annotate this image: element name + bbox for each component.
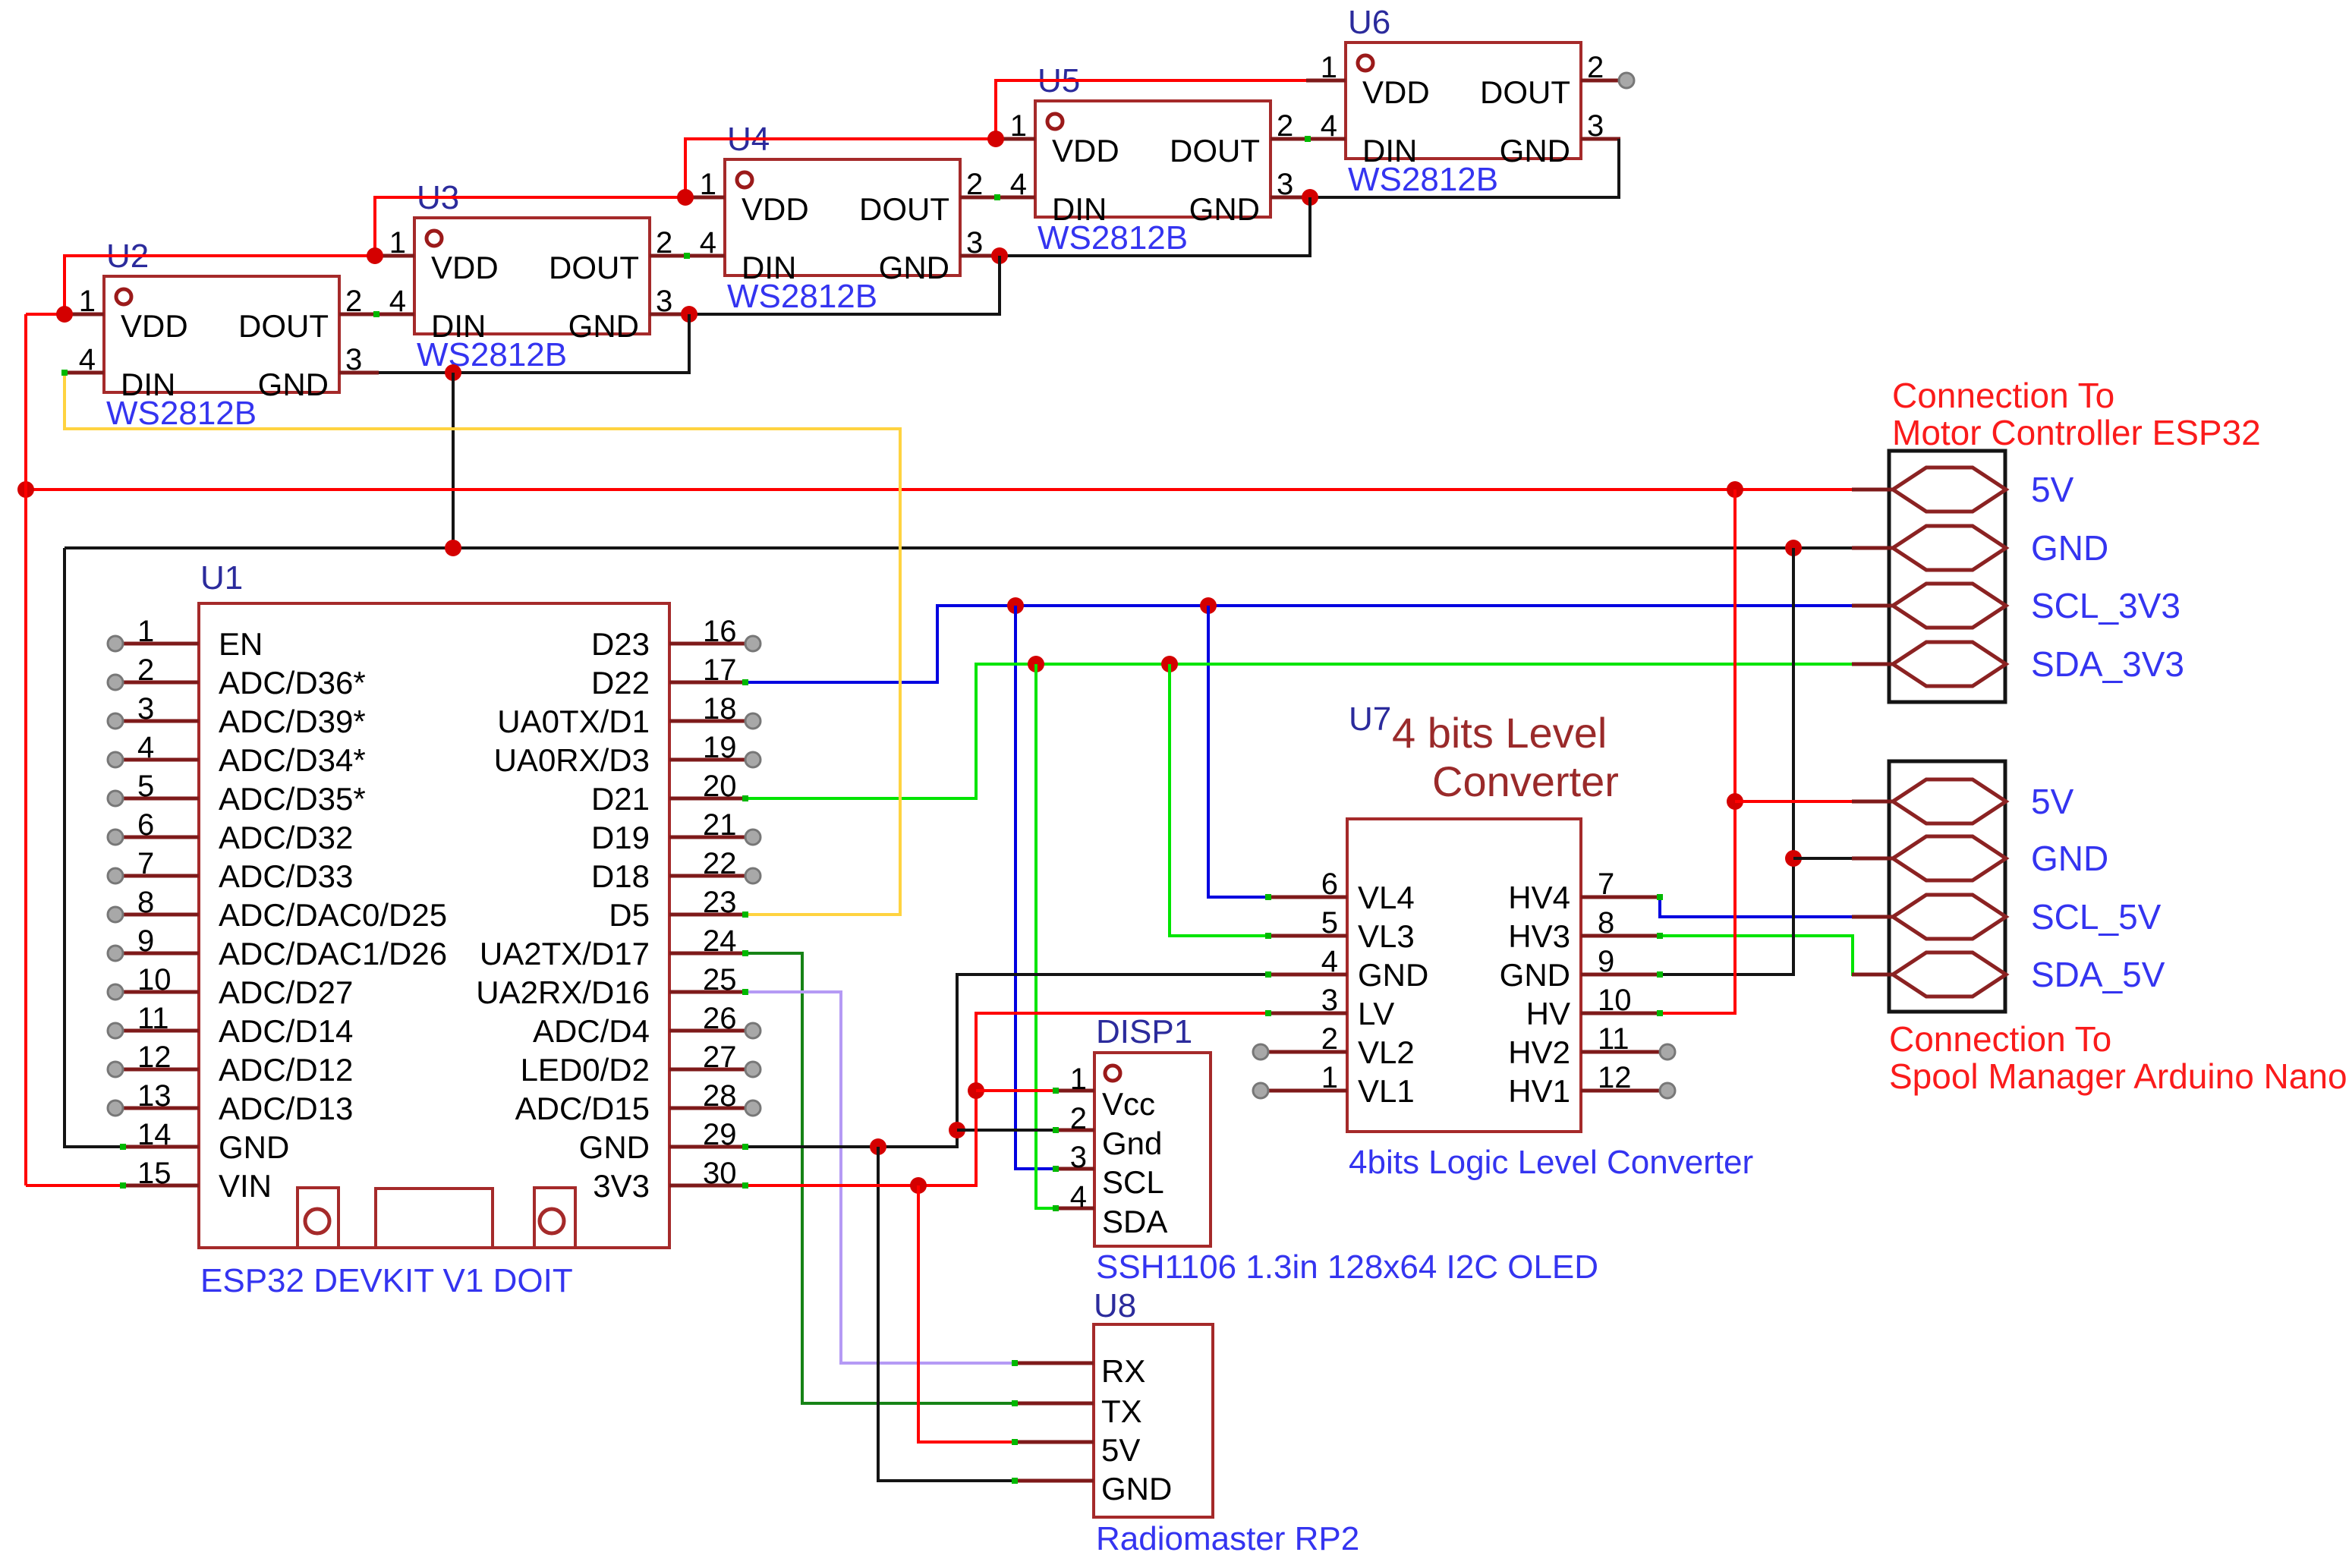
- U6 pin 1 VDD stub: [1306, 79, 1346, 83]
- U1 pin 1 open circle: [108, 636, 123, 651]
- svg-text:1: 1: [389, 226, 406, 260]
- U7 pin 12 open circle: [1660, 1083, 1675, 1098]
- U4 pin 3 GND stub: [960, 254, 1000, 258]
- pin-join tick U1 pin25 join: [742, 989, 748, 995]
- U1 pin 17 stub: [669, 681, 745, 685]
- pin-join tick U7 HV4 join: [1657, 894, 1663, 900]
- svg-text:GND: GND: [258, 367, 329, 402]
- junction U3 GND: [681, 306, 697, 323]
- svg-text:ADC/D14: ADC/D14: [219, 1013, 353, 1049]
- svg-text:1: 1: [1321, 1061, 1338, 1094]
- pin-join tick U8 TX join: [1012, 1400, 1018, 1406]
- U1 pin 6 open circle: [108, 830, 123, 845]
- svg-text:LV: LV: [1358, 996, 1394, 1031]
- U1 pin 11 stub: [123, 1029, 199, 1033]
- svg-text:ADC/D27: ADC/D27: [219, 974, 353, 1010]
- U7 pin 8 stub: [1581, 934, 1660, 938]
- J1 pin SDA_3V3 stub: [1852, 663, 1893, 666]
- svg-text:UA0RX/D3: UA0RX/D3: [494, 742, 650, 778]
- svg-text:GND: GND: [2031, 839, 2108, 878]
- svg-text:22: 22: [703, 847, 737, 880]
- U1 pin 19 stub: [669, 758, 745, 762]
- svg-text:9: 9: [137, 924, 154, 958]
- J1 pin 5V hex pad: [1893, 468, 2006, 512]
- pin-join tick U7 HV3 join: [1657, 933, 1663, 939]
- pin-join tick U1 pin30 join: [742, 1182, 748, 1189]
- svg-text:SDA_3V3: SDA_3V3: [2031, 644, 2184, 684]
- U2 pin 2 DOUT stub: [339, 313, 379, 316]
- wire 5V HV to rail riser: [1660, 490, 1735, 1013]
- U1 pin 1 stub: [123, 642, 199, 646]
- svg-text:1: 1: [700, 168, 716, 201]
- chip DISP1 OLED body: [1094, 1053, 1211, 1246]
- U4 pin 1 VDD stub: [685, 196, 725, 200]
- svg-text:GND: GND: [2031, 528, 2108, 568]
- svg-text:6: 6: [1321, 867, 1338, 901]
- svg-text:2: 2: [137, 653, 154, 687]
- U1 pin 16 stub: [669, 642, 745, 646]
- svg-text:5V: 5V: [2031, 470, 2074, 509]
- U8 pin GND stub: [1015, 1479, 1094, 1483]
- U3 pin 2 DOUT stub: [650, 254, 689, 258]
- junction GND tee above rail: [445, 364, 461, 381]
- U1 pin 28 open circle: [745, 1100, 760, 1116]
- svg-text:ADC/D35*: ADC/D35*: [219, 781, 366, 817]
- pin-join tick U8 5V join: [1012, 1439, 1018, 1445]
- svg-text:VDD: VDD: [121, 308, 188, 344]
- pin-join tick U7 GND4 join: [1265, 971, 1271, 978]
- U7 pin 2 open circle: [1253, 1044, 1268, 1060]
- svg-text:GND: GND: [1101, 1471, 1172, 1507]
- wire 5V riser U5 to U6 level: [996, 80, 1306, 139]
- wire 3V3 red U1 pin30 to U7 LV: [745, 1013, 1268, 1185]
- svg-text:WS2812B: WS2812B: [1038, 219, 1188, 257]
- DISP1 pin 2 stub: [1056, 1129, 1094, 1132]
- pin-join tick U7 VL4 join: [1265, 894, 1271, 900]
- J1 pin SDA_3V3 hex pad: [1893, 642, 2006, 686]
- U6 DOUT open pin circle: [1619, 73, 1634, 88]
- pin-join tick DISP1 SCL join: [1053, 1166, 1059, 1172]
- U4 pin 2 DOUT stub: [960, 196, 1000, 200]
- pin-join tick U3-U4: [684, 253, 690, 259]
- wire UA2TX dark green U1 pin24 to U8 TX: [745, 953, 1015, 1403]
- wire 5V branch to connector2: [1735, 800, 1852, 803]
- U1 pin 26 open circle: [745, 1023, 760, 1038]
- svg-text:LED0/D2: LED0/D2: [521, 1052, 650, 1088]
- svg-text:D22: D22: [591, 665, 650, 701]
- svg-text:8: 8: [137, 886, 154, 919]
- svg-text:19: 19: [703, 731, 737, 764]
- J2 pin SDA_5V hex pad: [1893, 952, 2006, 997]
- junction GND rail at connector riser: [1785, 540, 1802, 556]
- svg-text:Connection To: Connection To: [1889, 1019, 2111, 1059]
- svg-text:Connection To: Connection To: [1892, 376, 2114, 415]
- U1 pin 12 open circle: [108, 1062, 123, 1077]
- svg-text:WS2812B: WS2812B: [727, 278, 877, 315]
- svg-text:HV4: HV4: [1508, 880, 1570, 915]
- U1 pin 27 open circle: [745, 1062, 760, 1077]
- svg-text:ADC/D36*: ADC/D36*: [219, 665, 366, 701]
- junction GND riser at connector2: [1785, 850, 1802, 867]
- pin-join tick DISP1 SDA join: [1053, 1205, 1059, 1211]
- U1 pin 28 stub: [669, 1107, 745, 1110]
- U8 pin 5V stub: [1015, 1440, 1094, 1444]
- U7 pin 9 stub: [1581, 973, 1660, 977]
- svg-text:D5: D5: [609, 897, 650, 933]
- U2 pin 3 GND stub: [339, 371, 379, 375]
- svg-text:26: 26: [703, 1002, 737, 1035]
- svg-text:Motor Controller ESP32: Motor Controller ESP32: [1892, 413, 2261, 452]
- svg-text:4: 4: [1321, 945, 1338, 978]
- svg-text:20: 20: [703, 770, 737, 803]
- U1 pin 25 stub: [669, 990, 745, 994]
- wire GND rail horizontal: [65, 546, 1852, 549]
- wire GND tee drop to rail: [452, 373, 455, 548]
- U1 pin 9 open circle: [108, 946, 123, 961]
- U5 pin 1 VDD stub: [996, 137, 1035, 141]
- svg-text:SCL_3V3: SCL_3V3: [2031, 586, 2181, 625]
- U1 pin 9 stub: [123, 952, 199, 956]
- svg-text:13: 13: [137, 1079, 172, 1113]
- wire UA2RX purple U1 pin25 to U8 RX: [745, 992, 1015, 1363]
- U7 pin 2 stub: [1268, 1050, 1347, 1054]
- pin-join tick U1 pin14 join: [120, 1144, 126, 1150]
- U7 pin 11 stub: [1581, 1050, 1660, 1054]
- svg-text:GND: GND: [1189, 191, 1260, 227]
- svg-text:ADC/D12: ADC/D12: [219, 1052, 353, 1088]
- svg-text:VL3: VL3: [1358, 918, 1415, 954]
- wire GND branch to connector2: [1793, 857, 1852, 860]
- J2 pin GND hex pad: [1893, 836, 2006, 880]
- svg-text:5: 5: [1321, 906, 1338, 940]
- U1 pin 6 stub: [123, 836, 199, 839]
- U1 pin 14 stub: [123, 1145, 199, 1149]
- junction 5V riser at connector2: [1727, 793, 1743, 810]
- U7 pin 12 stub: [1581, 1089, 1660, 1093]
- junction 5V rail left: [17, 481, 34, 498]
- wire SCL_5V blue HV4 to connector: [1660, 897, 1852, 917]
- svg-text:HV: HV: [1526, 996, 1570, 1031]
- junction U4 GND: [991, 247, 1008, 264]
- wire 3V3 branch to DISP1 Vcc: [976, 1089, 1056, 1092]
- U7 pin 10 stub: [1581, 1012, 1660, 1015]
- svg-text:25: 25: [703, 963, 737, 997]
- wire DOUT-DIN link U3-U4: [650, 254, 725, 258]
- svg-text:U6: U6: [1348, 4, 1390, 41]
- svg-text:1: 1: [137, 615, 154, 648]
- junction GND rail at U2 drop: [445, 540, 461, 556]
- wire SCL net blue from U1 pin17: [745, 606, 1852, 682]
- junction SCL at DISP1 drop: [1007, 597, 1024, 614]
- J1 pin GND stub: [1852, 546, 1893, 550]
- U1 pin 24 stub: [669, 952, 745, 956]
- svg-text:10: 10: [137, 963, 172, 997]
- svg-text:GND: GND: [219, 1129, 289, 1165]
- junction U4 VDD: [677, 189, 694, 206]
- svg-text:U1: U1: [200, 559, 243, 597]
- junction U3 VDD: [367, 247, 383, 264]
- U6 pin 4 DIN stub: [1306, 137, 1346, 141]
- svg-text:HV3: HV3: [1508, 918, 1570, 954]
- svg-text:1: 1: [1321, 51, 1337, 84]
- svg-text:UA2TX/D17: UA2TX/D17: [480, 936, 650, 971]
- svg-text:VDD: VDD: [431, 250, 499, 285]
- pin-join tick U1 pin29 join: [742, 1144, 748, 1150]
- svg-text:1: 1: [79, 285, 96, 318]
- svg-text:16: 16: [703, 615, 737, 648]
- svg-text:21: 21: [703, 808, 737, 842]
- U1 pin 13 open circle: [108, 1100, 123, 1116]
- svg-text:D19: D19: [591, 820, 650, 855]
- J1 pin SCL_3V3 hex pad: [1893, 584, 2006, 628]
- wire SCL drop to DISP1: [1015, 606, 1056, 1169]
- DISP1 pin 1 stub: [1056, 1089, 1094, 1093]
- junction SDA at DISP1 drop: [1028, 656, 1044, 672]
- pin-join tick U8 GND join: [1012, 1478, 1018, 1484]
- svg-text:VDD: VDD: [1052, 133, 1119, 168]
- svg-text:Radiomaster RP2: Radiomaster RP2: [1096, 1520, 1359, 1557]
- pin-join tick U7 GND9 join: [1657, 971, 1663, 978]
- svg-text:30: 30: [703, 1157, 737, 1190]
- wire 5V riser U3 to U4 level: [375, 197, 685, 256]
- svg-text:7: 7: [137, 847, 154, 880]
- svg-text:27: 27: [703, 1041, 737, 1074]
- chip U6 WS2812B body: [1346, 43, 1581, 168]
- svg-text:RX: RX: [1101, 1353, 1145, 1389]
- U1 pin 16 open circle: [745, 636, 760, 651]
- svg-text:4: 4: [1070, 1180, 1087, 1214]
- chip U3 WS2812B body: [414, 218, 650, 344]
- U1 pin 2 stub: [123, 681, 199, 685]
- svg-text:12: 12: [1598, 1061, 1632, 1094]
- svg-text:11: 11: [1598, 1022, 1630, 1056]
- svg-text:VDD: VDD: [742, 191, 809, 227]
- connector J1 frame: [1889, 451, 2005, 702]
- U6 pin 2 DOUT stub: [1581, 79, 1620, 83]
- pin-join tick U1 pin20 join: [742, 795, 748, 801]
- svg-text:UA0TX/D1: UA0TX/D1: [497, 704, 650, 739]
- svg-text:DISP1: DISP1: [1096, 1013, 1192, 1050]
- svg-text:SCL: SCL: [1102, 1164, 1164, 1200]
- svg-text:ADC/D4: ADC/D4: [533, 1013, 650, 1049]
- chip U1 ESP32 body: [199, 603, 669, 1248]
- svg-text:5: 5: [137, 770, 154, 803]
- U1 pin 3 open circle: [108, 713, 123, 729]
- pin-join tick U7 LV join: [1265, 1010, 1271, 1016]
- U5 pin 4 DIN stub: [996, 196, 1035, 200]
- junction U5 VDD: [987, 131, 1004, 147]
- svg-text:ESP32 DEVKIT V1 DOIT: ESP32 DEVKIT V1 DOIT: [200, 1262, 573, 1299]
- svg-text:3: 3: [1321, 984, 1338, 1017]
- svg-text:U7: U7: [1349, 701, 1391, 738]
- svg-text:Gnd: Gnd: [1102, 1126, 1162, 1161]
- wire VIN to U1 pin15: [26, 1184, 123, 1187]
- chip U8 Radiomaster body: [1094, 1324, 1213, 1517]
- wire 5V U2 pin1 to left riser: [26, 313, 65, 316]
- U7 pin 5 stub: [1268, 934, 1347, 938]
- U1 pin 4 stub: [123, 758, 199, 762]
- junction U2 VDD: [56, 306, 73, 323]
- svg-text:U8: U8: [1094, 1287, 1136, 1324]
- chip U4 WS2812B body: [725, 159, 960, 285]
- U1 pin 10 stub: [123, 990, 199, 994]
- junction SDA at U7 drop: [1161, 656, 1178, 672]
- chip U7 level converter body: [1347, 819, 1581, 1132]
- wire GND U6 to U5: [1310, 139, 1619, 197]
- U1 pin 5 stub: [123, 797, 199, 801]
- svg-text:ADC/DAC0/D25: ADC/DAC0/D25: [219, 897, 447, 933]
- svg-text:1: 1: [1070, 1063, 1087, 1096]
- svg-text:ADC/D33: ADC/D33: [219, 858, 353, 894]
- junction 5V rail at connector riser: [1727, 481, 1743, 498]
- U1 pin 8 open circle: [108, 907, 123, 922]
- wire GND U4 to U3: [689, 256, 1000, 314]
- svg-text:3: 3: [1070, 1141, 1087, 1174]
- pin-join tick DISP1 Vcc join: [1053, 1088, 1059, 1094]
- U7 pin 6 stub: [1268, 896, 1347, 899]
- svg-text:WS2812B: WS2812B: [1348, 161, 1498, 198]
- U1 pin 7 open circle: [108, 868, 123, 883]
- svg-text:Spool Manager Arduino Nano: Spool Manager Arduino Nano: [1889, 1056, 2347, 1096]
- U1 pin 18 stub: [669, 719, 745, 723]
- junction 3V3 at DISP1 branch: [968, 1082, 984, 1099]
- svg-text:4: 4: [137, 731, 154, 764]
- U1 pin 21 open circle: [745, 830, 760, 845]
- svg-text:UA2RX/D16: UA2RX/D16: [476, 974, 650, 1010]
- svg-text:Vcc: Vcc: [1102, 1086, 1155, 1122]
- pin-join tick U4-U5: [994, 194, 1000, 200]
- wire D5 yellow U2 DIN to U1 pin23: [65, 373, 900, 915]
- pin-join tick U8 RX join: [1012, 1360, 1018, 1366]
- wire GND branch to DISP1 Gnd: [957, 1129, 1056, 1132]
- svg-text:3: 3: [1277, 168, 1293, 201]
- pin-join tick U1 pin17 join: [742, 679, 748, 685]
- U6 DOUT open pin stub: [1581, 79, 1619, 83]
- svg-text:14: 14: [137, 1118, 172, 1151]
- svg-text:D18: D18: [591, 858, 650, 894]
- svg-text:5V: 5V: [2031, 782, 2074, 821]
- svg-text:HV1: HV1: [1508, 1073, 1570, 1109]
- svg-text:Converter: Converter: [1432, 757, 1619, 805]
- svg-text:4 bits Level: 4 bits Level: [1392, 709, 1607, 757]
- wire VIN left vertical: [24, 314, 27, 1185]
- svg-text:D23: D23: [591, 626, 650, 662]
- svg-text:23: 23: [703, 886, 737, 919]
- U6 pin 3 GND stub: [1581, 137, 1620, 141]
- svg-text:SCL_5V: SCL_5V: [2031, 897, 2162, 937]
- svg-text:1: 1: [1010, 109, 1027, 143]
- U1 pin 8 stub: [123, 913, 199, 917]
- svg-text:GND: GND: [568, 308, 639, 344]
- pin-join tick U7 VL3 join: [1265, 933, 1271, 939]
- U7 pin 7 stub: [1581, 896, 1660, 899]
- svg-text:2: 2: [1070, 1102, 1087, 1135]
- U1 pin 29 stub: [669, 1145, 745, 1149]
- wire SDA net green from U1 pin20: [745, 664, 1852, 798]
- wire GND HV side to rail riser: [1660, 548, 1793, 974]
- U1 pin 3 stub: [123, 719, 199, 723]
- U3 pin 4 DIN stub: [375, 313, 414, 316]
- svg-text:VL4: VL4: [1358, 880, 1415, 915]
- DISP1 pin 4 stub: [1056, 1207, 1094, 1211]
- svg-text:DOUT: DOUT: [549, 250, 639, 285]
- U7 pin 1 open circle: [1253, 1083, 1268, 1098]
- wire 5V riser U4 to U5 level: [685, 139, 996, 197]
- U1 pin 22 open circle: [745, 868, 760, 883]
- U1 pin 4 open circle: [108, 752, 123, 767]
- U1 pin 2 open circle: [108, 675, 123, 690]
- chip U2 WS2812B body: [104, 276, 339, 402]
- pin-join tick U5-U6: [1305, 136, 1311, 142]
- svg-text:28: 28: [703, 1079, 737, 1113]
- svg-text:TX: TX: [1101, 1393, 1142, 1429]
- U1 pin 26 stub: [669, 1029, 745, 1033]
- connector J2 frame: [1889, 761, 2005, 1012]
- U1 pin 7 stub: [123, 874, 199, 878]
- svg-text:8: 8: [1598, 906, 1614, 940]
- svg-text:VL2: VL2: [1358, 1034, 1415, 1070]
- J2 pin 5V hex pad: [1893, 779, 2006, 823]
- junction 3V3 at U8 drop: [910, 1177, 927, 1194]
- svg-text:12: 12: [137, 1041, 172, 1074]
- svg-text:4: 4: [79, 343, 96, 376]
- U1 pin 11 open circle: [108, 1023, 123, 1038]
- U1 pin 18 open circle: [745, 713, 760, 729]
- U3 pin 3 GND stub: [650, 313, 689, 316]
- DISP1 pin 3 stub: [1056, 1167, 1094, 1171]
- U1 pin 20 stub: [669, 797, 745, 801]
- svg-text:18: 18: [703, 692, 737, 726]
- svg-text:3V3: 3V3: [593, 1168, 650, 1204]
- svg-text:GND: GND: [879, 250, 949, 285]
- U3 pin 1 VDD stub: [375, 254, 414, 258]
- U1 pin 27 stub: [669, 1068, 745, 1072]
- U7 pin 4 stub: [1268, 973, 1347, 977]
- svg-text:3: 3: [345, 343, 362, 376]
- wire SDA drop to U7 VL3: [1170, 664, 1268, 936]
- J1 pin SCL_3V3 stub: [1852, 604, 1893, 608]
- U7 pin 1 stub: [1268, 1089, 1347, 1093]
- J1 pin 5V stub: [1852, 488, 1893, 492]
- svg-text:7: 7: [1598, 867, 1614, 901]
- wire 5V drop to U8: [918, 1185, 1015, 1442]
- svg-text:ADC/D13: ADC/D13: [219, 1091, 353, 1126]
- U1 pin 5 open circle: [108, 791, 123, 806]
- wire SCL drop to U7 VL4: [1208, 606, 1268, 897]
- U5 pin 2 DOUT stub: [1271, 137, 1310, 141]
- svg-text:10: 10: [1598, 984, 1632, 1017]
- svg-text:GND: GND: [1500, 133, 1570, 168]
- svg-text:4bits Logic Level Converter: 4bits Logic Level Converter: [1349, 1144, 1753, 1181]
- J1 pin GND hex pad: [1893, 526, 2006, 570]
- U7 pin 11 open circle: [1660, 1044, 1675, 1060]
- wire GND U1 pin29 to U7: [745, 974, 1268, 1147]
- svg-text:ADC/DAC1/D26: ADC/DAC1/D26: [219, 936, 447, 971]
- svg-text:3: 3: [966, 226, 983, 260]
- U1 pin 30 stub: [669, 1184, 745, 1188]
- pin-join tick U1 pin24 join: [742, 950, 748, 956]
- svg-text:D21: D21: [591, 781, 650, 817]
- svg-text:HV2: HV2: [1508, 1034, 1570, 1070]
- junction U5 GND: [1302, 189, 1318, 206]
- pin-join tick U1 pin15 join: [120, 1182, 126, 1189]
- U1 pin 15 stub: [123, 1184, 199, 1188]
- junction GND at U8 drop: [870, 1138, 886, 1155]
- svg-text:3: 3: [1587, 109, 1604, 143]
- J2 pin SCL_5V hex pad: [1893, 895, 2006, 939]
- J2 pin GND stub: [1852, 857, 1893, 861]
- svg-text:DOUT: DOUT: [1480, 74, 1570, 110]
